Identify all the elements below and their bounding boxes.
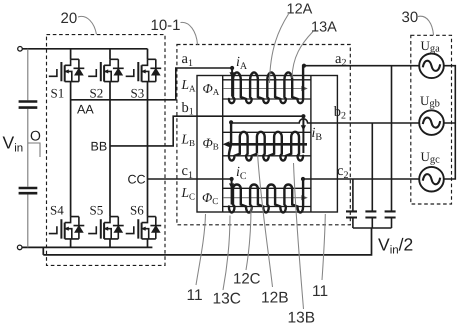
svg-text:S1: S1 xyxy=(51,86,65,101)
svg-text:20: 20 xyxy=(61,10,78,27)
svg-text:BB: BB xyxy=(91,140,108,154)
svg-text:S5: S5 xyxy=(90,203,104,218)
svg-text:12A: 12A xyxy=(287,2,313,18)
svg-text:CC: CC xyxy=(128,173,146,187)
svg-text:13B: 13B xyxy=(288,310,316,325)
svg-text:11: 11 xyxy=(312,283,328,300)
svg-text:S3: S3 xyxy=(131,86,145,101)
svg-text:10-1: 10-1 xyxy=(151,17,181,34)
svg-text:13A: 13A xyxy=(311,20,337,36)
svg-text:11: 11 xyxy=(187,287,203,304)
svg-text:30: 30 xyxy=(402,9,419,26)
svg-text:AA: AA xyxy=(77,103,94,117)
svg-text:S2: S2 xyxy=(90,86,104,101)
svg-text:S6: S6 xyxy=(130,203,144,218)
svg-text:O: O xyxy=(30,128,41,144)
svg-text:12C: 12C xyxy=(233,271,261,288)
svg-text:12B: 12B xyxy=(261,290,289,307)
svg-text:S4: S4 xyxy=(50,203,64,218)
svg-text:13C: 13C xyxy=(213,291,241,308)
